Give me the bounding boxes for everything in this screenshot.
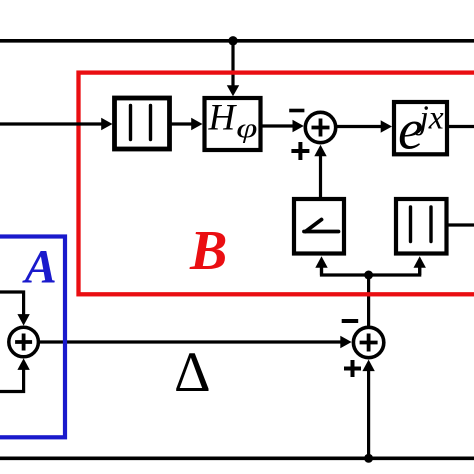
svg-text:A: A [22, 241, 57, 294]
svg-text:H: H [208, 98, 238, 139]
svg-text:jx: jx [416, 99, 444, 136]
svg-text:B: B [189, 220, 227, 282]
svg-text:Δ: Δ [174, 341, 211, 404]
svg-text:φ: φ [236, 113, 257, 143]
